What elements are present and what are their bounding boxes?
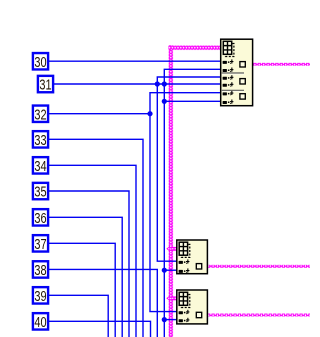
- wire from constant 36 down off-screen: [49, 217, 122, 337]
- numeric constant 38: [33, 261, 48, 279]
- svg-text:38: 38: [34, 262, 46, 279]
- numeric constant 31: [38, 76, 53, 94]
- wire: cluster-array horizontal into node U1 array input: [168, 45, 221, 50]
- junction: net31 to U1 in6: [162, 99, 167, 104]
- wire: cluster output of U3: [207, 314, 310, 317]
- wire from constant 35 down off-screen: [49, 191, 129, 337]
- U1 output terminal 2: [240, 79, 245, 84]
- numeric constant 30: [33, 53, 48, 71]
- U3 index terminal 2: [179, 318, 190, 323]
- junction: wire31/net31-xB: [155, 81, 160, 86]
- wire from constant 39 down off-screen: [49, 295, 108, 337]
- svg-text:34: 34: [34, 158, 46, 175]
- numeric constant 33: [33, 131, 48, 149]
- wire: cluster output of U2: [207, 265, 310, 268]
- U2 index terminal 1: [179, 259, 190, 264]
- junction: wire31/net31-xC: [162, 81, 167, 86]
- junction: wire32/net32: [147, 111, 152, 116]
- U1 2D array icon: [223, 41, 234, 56]
- wire net32 branch down to U3 index in1: [150, 114, 178, 312]
- U2 output terminal: [196, 264, 201, 269]
- junction: magenta branch to U3 array input: [166, 295, 175, 302]
- wire from constant 37 down off-screen: [49, 243, 115, 337]
- U2 index terminal 2: [179, 268, 190, 273]
- numeric constant 35: [33, 183, 48, 201]
- svg-text:31: 31: [39, 77, 51, 94]
- svg-text:36: 36: [34, 210, 46, 227]
- svg-text:37: 37: [34, 236, 46, 253]
- junction: net31 to U3 in2: [162, 317, 167, 322]
- U3 output terminal: [196, 312, 201, 317]
- wire net31 stub to U3 index in2: [164, 319, 177, 321]
- svg-text:39: 39: [34, 288, 46, 305]
- U1 index terminal 6: [223, 100, 234, 105]
- U1 index terminal 4: [223, 82, 234, 87]
- svg-text:32: 32: [34, 106, 46, 123]
- wire net31 branch up to U1 index in2: [164, 69, 221, 84]
- U1 index terminal 2: [223, 68, 234, 73]
- junction: magenta branch to U2 array input: [166, 245, 175, 252]
- numeric constant 39: [33, 287, 48, 305]
- U1 output terminal 3: [240, 94, 245, 99]
- wire from constant 33 down off-screen: [49, 139, 143, 337]
- svg-text:33: 33: [34, 132, 46, 149]
- wire net31 branch down to U2 index in1: [157, 84, 177, 261]
- op node U2: Index Array body: [177, 240, 208, 274]
- U1 index terminal 3: [223, 75, 234, 80]
- wire net31 stub to U2 index in2: [164, 269, 177, 271]
- svg-text:30: 30: [34, 54, 46, 71]
- wire net31 branch up to U1 index in3: [157, 77, 221, 84]
- wire from constant 40 down off-screen: [49, 321, 151, 337]
- junction: net31 to U2 in2: [162, 268, 167, 273]
- wire from constant 32: [49, 113, 150, 115]
- numeric constant 36: [33, 209, 48, 227]
- U1 index terminal 5: [223, 91, 234, 96]
- numeric constant 34: [33, 157, 48, 175]
- svg-text:40: 40: [34, 314, 46, 331]
- wire: cluster output of U1: [253, 63, 310, 66]
- wire from constant 38 down off-screen: [49, 269, 158, 337]
- U1 group separator 2: [222, 89, 244, 91]
- op node U3: Index Array body: [177, 290, 208, 324]
- wire: 2D cluster-array main vertical trunk: [168, 45, 173, 337]
- U1 output terminal 1: [240, 62, 245, 67]
- numeric constant 37: [33, 235, 48, 253]
- wire from constant 34 down off-screen: [49, 165, 136, 337]
- U3 index terminal 1: [179, 310, 190, 315]
- U3 2D array icon: [179, 292, 190, 307]
- wire net31 vertical trunk down: [163, 84, 165, 337]
- U1 group separator 1: [222, 72, 244, 74]
- numeric constant 32: [33, 106, 48, 124]
- svg-text:35: 35: [34, 184, 46, 201]
- wire net31 stub to U1 index in6: [164, 100, 221, 102]
- numeric constant 40: [33, 313, 48, 331]
- U1 index terminal 1: [223, 59, 234, 64]
- op node U1: Index Array (3 outputs) body: [221, 39, 253, 106]
- wire from constant 30 to U1 index in1: [49, 60, 221, 62]
- wire net32 branch up to U1 index in5: [150, 93, 221, 114]
- wire from constant 31 to U1 index in4: [54, 83, 221, 85]
- U2 2D array icon: [179, 242, 190, 257]
